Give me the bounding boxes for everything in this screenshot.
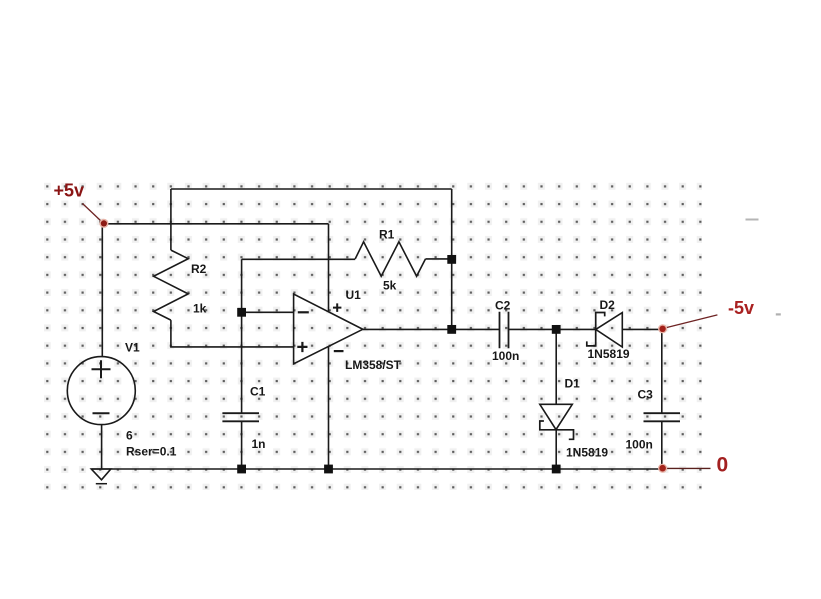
wire C2 right plate to D2 cathode (509, 328, 596, 330)
svg-text:100n: 100n (492, 349, 519, 363)
V1 plus mark (92, 360, 111, 378)
svg-text:1N5819: 1N5819 (566, 446, 608, 460)
op-amp inverting input mark (298, 311, 309, 313)
svg-text:5k: 5k (383, 279, 397, 293)
label anchor line for -5v (666, 315, 717, 328)
label anchor line for 0 (667, 467, 711, 469)
V1 minus mark (93, 412, 110, 414)
junction R1 right terminal (447, 255, 456, 264)
svg-text:LM358/ST: LM358/ST (345, 358, 402, 372)
wire inverting-node vertical x=241.6 from R1 left wire down to C1 top plate (241, 259, 243, 413)
svg-text:D2: D2 (600, 298, 616, 312)
svg-text:100n: 100n (626, 437, 653, 451)
ground symbol (91, 469, 111, 480)
svg-text:+5v: +5v (54, 181, 85, 201)
capacitor C1 plates (222, 413, 259, 421)
grid dot field (44, 182, 702, 490)
junction C1 bottom on ground rail (237, 465, 246, 474)
svg-text:-5v: -5v (728, 298, 754, 318)
op-amp non-inverting input mark (297, 342, 307, 352)
diode D2 triangle (596, 313, 623, 347)
wire inverting input stub (242, 311, 294, 313)
diode D2 schottky cathode bar with hooks (587, 313, 605, 346)
wire -5v column vertical x=662 from node to C3 top plate (661, 329, 663, 413)
junction op-amp V- on ground rail (324, 465, 333, 474)
wire +5v rail horizontal y=224 from supply node to op-amp V+ column (102, 223, 328, 225)
svg-text:1k: 1k (193, 302, 207, 316)
svg-text:U1: U1 (346, 288, 362, 302)
junction C2/D1/D2 node (552, 325, 561, 334)
wire C3 bottom plate to 0 node (661, 421, 663, 468)
wire op-amp output to C2 left plate (363, 328, 500, 330)
wire op-amp V+ pin vertical (328, 224, 330, 312)
svg-text:V1: V1 (125, 341, 140, 355)
node +5v red dot (99, 219, 108, 228)
op-amp V- supply mark (334, 350, 344, 352)
wire R1 left horizontal y=259 (242, 258, 356, 260)
wire op-amp V- pin vertical to ground rail (328, 346, 330, 469)
wire vertical R1-right column x=452 from top wire down to R1 terminal (451, 189, 453, 259)
wire vertical D1 top from C2/D2 node down to D1 triangle (555, 329, 557, 404)
wire top feedback from R2 top to R1 right column (171, 188, 452, 190)
voltage source V1 circle (67, 357, 135, 425)
svg-text:R1: R1 (379, 228, 395, 242)
svg-text:D1: D1 (565, 377, 581, 391)
wire C1 bottom plate to ground rail (241, 421, 243, 469)
wire R1 right terminal (426, 258, 452, 260)
junction D1 cathode on ground rail (552, 465, 561, 474)
stray mark right of -5v (776, 313, 781, 315)
junction op-amp output node (447, 325, 456, 334)
svg-text:6: 6 (126, 429, 133, 443)
wire R2 bottom to op-amp + input (171, 320, 294, 347)
svg-text:C1: C1 (250, 385, 266, 399)
wire vertical from R1 right terminal down to output node (451, 259, 453, 329)
wire vertical R2 top from feedback wire down to zigzag (170, 189, 172, 250)
junction at inverting input node (237, 308, 246, 317)
diode D1 schottky cathode bar with hooks (540, 421, 574, 439)
wire ground rail y=469 (91, 468, 662, 470)
op-amp V+ supply mark (333, 303, 341, 312)
diode D1 triangle (540, 404, 573, 429)
capacitor C3 plates (644, 413, 681, 421)
node 0 red dot (658, 464, 667, 473)
wire D1 cathode to ground rail (555, 430, 557, 469)
wire vertical from V1 bottom to ground rail (101, 425, 103, 469)
svg-text:C2: C2 (495, 299, 511, 313)
resistor R2 zigzag body (154, 250, 189, 320)
svg-text:C3: C3 (638, 387, 654, 401)
ground symbol lower dash (96, 483, 107, 485)
svg-text:0: 0 (717, 454, 729, 477)
capacitor C2 plates (500, 312, 509, 348)
label anchor line for +5v (83, 204, 102, 222)
svg-text:1n: 1n (252, 437, 266, 451)
wire D2 anode to -5v node (622, 328, 662, 330)
wire vertical from +5v node down to V1 top (101, 224, 103, 357)
resistor R1 zigzag body (355, 242, 425, 276)
svg-text:Rser=0.1: Rser=0.1 (126, 445, 177, 459)
op-amp U1 triangle (294, 294, 363, 364)
stray mark upper right (746, 219, 759, 221)
node -5v red dot (658, 324, 667, 333)
svg-text:1N5819: 1N5819 (588, 347, 630, 361)
svg-text:R2: R2 (191, 262, 207, 276)
